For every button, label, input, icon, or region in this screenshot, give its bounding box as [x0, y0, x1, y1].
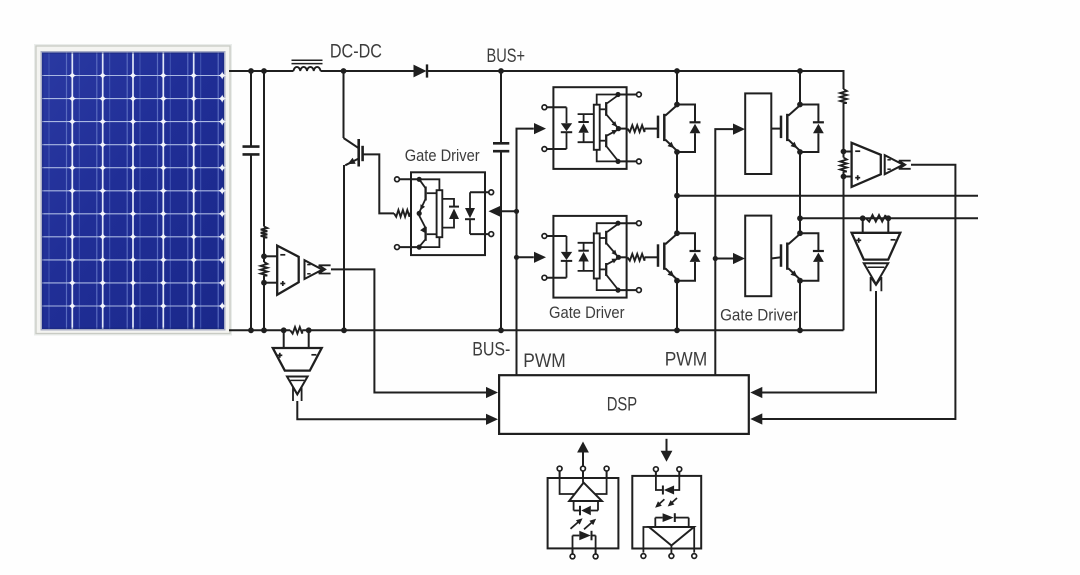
wire PWM2 to U7 arrow [715, 258, 733, 260]
wire CMP4 output to DSP [762, 291, 876, 393]
wire BUS- main [302, 329, 843, 331]
transistor GD1 lower (totem pole) [419, 216, 436, 247]
node BUS- shunt left [281, 327, 287, 333]
node Q4 (leg B high) emitter [797, 149, 803, 155]
node BUS- shunt right [306, 327, 312, 333]
transistor Q3 (leg A low) IGBT [658, 234, 677, 280]
wire shunt stub left [862, 218, 864, 233]
pin GD1 top-left [395, 177, 420, 182]
pin U4 top-right [618, 92, 641, 97]
wire U5 resistor to IGBT gate [645, 256, 659, 258]
wire input cap leg upper [250, 71, 252, 147]
wire CMP1 output to DSP [331, 269, 487, 392]
resistor U4 gate [627, 125, 644, 132]
wire boost gate to driver resistor [363, 154, 394, 213]
svg-text:PWM: PWM [665, 349, 708, 370]
diode GD1 feedback [442, 199, 459, 228]
wire bus corner down [843, 70, 845, 89]
wire phase A output line [677, 195, 978, 197]
pin GD1 top-right [470, 190, 494, 195]
wire CMP2 stub left [283, 330, 285, 348]
capacitor C2 (dc-link) [493, 143, 509, 151]
diode OC1 photodiode [574, 501, 598, 515]
wire boost emitter down to BUS- [343, 165, 345, 330]
transistor Q4 (leg B high) IGBT [781, 105, 800, 151]
diode OC2 photodiode [655, 513, 688, 527]
node BUS+ / dc-link cap [498, 68, 504, 74]
svg-text:BUS-: BUS- [472, 340, 510, 361]
wire CMP3 output to DSP [762, 165, 955, 419]
wire boost tap down [343, 71, 345, 138]
diode U4 feedback [578, 114, 594, 142]
node bus divider tap2 [841, 174, 847, 180]
svg-text:Gate Driver: Gate Driver [720, 306, 798, 325]
op-amp U9 trapezoid (output current sense) [852, 233, 901, 260]
arrow PWM2 into U7 [733, 253, 745, 264]
wire U4 output to gate resistor [619, 128, 628, 130]
transistor U5 lower [600, 258, 618, 289]
diode Q4 (leg B high) freewheel [800, 105, 824, 153]
wire divider leg upper [263, 71, 265, 227]
wire OC1 LED legs [573, 536, 596, 549]
pin OC2 top-left [654, 467, 659, 476]
pin U5 bottom-left [542, 275, 567, 280]
arrow into DSP right upper [750, 387, 762, 398]
wire divider leg lower [263, 276, 265, 331]
buffer stage U9b [864, 263, 888, 284]
wire tap to CMP1 minus input [264, 255, 277, 257]
wire inductor to diode [321, 70, 414, 72]
arrow into DSP left lower [486, 414, 498, 425]
glyph M U9 [871, 277, 882, 291]
node divider tap upper [261, 253, 267, 259]
coupler channel rect GD1 [437, 190, 443, 237]
label DSP [607, 394, 638, 415]
light arrows OC2 [655, 498, 677, 508]
node U4 bottom rail [615, 159, 620, 164]
opto isolator OC1 box [548, 478, 619, 548]
wire phase B output line [800, 217, 978, 219]
node BUS- dc-link [498, 327, 504, 333]
gate driver U3 box [411, 172, 485, 255]
wire leg A mid upper [676, 152, 678, 235]
label Gate Driver (leg B) [720, 306, 798, 325]
node leg B at BUS- [797, 327, 803, 333]
transistor Q2 (leg A high) IGBT [658, 105, 677, 151]
node GD1 bottom rail [417, 245, 422, 250]
light arrows OC1 [571, 518, 597, 529]
node GD1 output [417, 211, 422, 216]
wire U5 output to gate resistor [619, 256, 628, 258]
node BUS+ / bridge leg B [797, 68, 803, 74]
resistor R2 (divider lower) [261, 262, 268, 276]
solar panel PV1 [34, 44, 232, 336]
amplifier OC1 triangle [569, 483, 602, 501]
pin GD1 bottom-left [395, 245, 420, 250]
diode U5 feedback [578, 243, 594, 271]
wire BUS- from panel [229, 329, 290, 331]
buffer stage U2b with sigma glyph [305, 260, 331, 279]
wire PWM2 vertical from DSP [715, 129, 733, 375]
node leg A phase output [674, 193, 680, 199]
node Q2 (leg A high) emitter [674, 149, 680, 155]
diode Q2 (leg A high) freewheel [677, 105, 701, 153]
node BUS- divider leg [261, 327, 267, 333]
transistor U4 lower [600, 130, 618, 161]
pin GD1 bottom-right [470, 232, 494, 237]
label Gate Driver (leg A) [549, 303, 625, 322]
diode U5 LED [561, 236, 572, 278]
buffer stage U8b with sigma glyph [885, 155, 911, 174]
pin U5 top-left [542, 234, 567, 239]
wire GD1 bottom rail [419, 237, 439, 247]
wire divider mid [843, 103, 845, 158]
amplifier OC2 triangle [649, 527, 694, 546]
diode Q3 (leg A low) freewheel [677, 233, 701, 281]
svg-text:BUS+: BUS+ [487, 46, 526, 67]
buffer stage U10b [287, 377, 308, 395]
wire input cap leg lower [250, 154, 252, 330]
wire PWM1 vertical from DSP [517, 129, 534, 376]
arrow PWM2 into U6 [733, 124, 745, 135]
wire U5 bottom rail [597, 279, 617, 291]
diode D1 (boost diode) [414, 64, 428, 77]
gate driver U5 box [553, 216, 626, 298]
wire PWM1 to GD3 arrow [517, 256, 534, 258]
arrow into GD1 right side [489, 206, 501, 217]
wire diode to bus corner [427, 70, 844, 72]
node BUS+ / bridge leg A [674, 68, 680, 74]
arrow PWM1 into GD3 [534, 252, 546, 263]
wire leg A from BUS+ [676, 71, 678, 105]
op-amp U8 trapezoid (bus voltage sense) [852, 143, 881, 187]
node shunt left [860, 215, 866, 221]
transistor Q1 (boost IGBT) [344, 138, 363, 167]
gate driver U4 box [553, 87, 626, 169]
pin U5 top-right [618, 221, 641, 226]
node shunt right [885, 215, 891, 221]
node U5 bottom rail [615, 288, 620, 293]
diode GD1 LED [465, 192, 475, 234]
pin OC2 bottom-left [641, 554, 646, 559]
wire gate resistor into GD1 [410, 212, 420, 214]
resistor R7 (BUS- shunt) [290, 327, 302, 334]
label BUS+ [487, 46, 526, 67]
pin U4 bottom-right [618, 159, 641, 164]
svg-text:DC-DC: DC-DC [330, 41, 382, 62]
transistor U4 upper [600, 95, 618, 127]
wire top bus from panel to boost section [229, 70, 294, 72]
node top bus / boost transistor tap [341, 68, 347, 74]
node divider tap lower [261, 280, 267, 286]
node leg A at BUS- [674, 327, 680, 333]
wire GD1 top rail [419, 179, 439, 190]
node U5 top rail [615, 221, 620, 226]
node Q3 (leg A low) emitter [674, 278, 680, 284]
pin OC1 top-left [557, 466, 562, 478]
capacitor C1 (panel input cap) [243, 147, 260, 155]
wire CMP2 output to DSP [297, 401, 487, 419]
opto isolator OC2 box [632, 476, 701, 549]
label PWM right [665, 349, 708, 370]
node Q5 (leg B low) emitter [797, 278, 803, 284]
wire leg B emitter to BUS- [799, 281, 801, 331]
wire OC2 right pin in [674, 476, 679, 490]
wire dc-link lower [500, 151, 502, 330]
pin U4 top-left [542, 105, 567, 110]
node top bus / input cap leg [248, 68, 254, 74]
transistor U5 upper [600, 224, 618, 256]
node BUS- boost emitter [341, 327, 347, 333]
arrow into DSP right lower [750, 413, 762, 424]
wire U4 top rail [597, 95, 617, 105]
pin OC1 top-right [604, 466, 609, 478]
node PWM1 / GD1 stub [514, 209, 519, 214]
svg-text:PWM: PWM [523, 351, 566, 372]
wire leg A emitter to BUS- [676, 281, 678, 331]
svg-text:Gate Driver: Gate Driver [549, 303, 625, 322]
pin OC1 bottom-right [593, 548, 598, 558]
coupler channel rect U5 [594, 233, 600, 278]
wire OC2 left pin in [656, 476, 662, 490]
node GD1 top rail [417, 177, 422, 182]
arrow into DSP left upper [486, 387, 498, 398]
resistor U5 gate [627, 254, 644, 261]
pin OC2 bottom-right [692, 554, 697, 559]
wire U5 top rail [597, 223, 617, 233]
pin U4 bottom-left [542, 147, 567, 152]
wire PWM to GD1 input [500, 210, 517, 212]
glyph M U10 [293, 387, 302, 401]
wire OC2 mid leg [670, 546, 672, 554]
diode Q5 (leg B low) freewheel [800, 233, 824, 281]
pin OC1 top-mid [581, 466, 586, 478]
wire tap to CMP1 plus input [264, 282, 277, 284]
resistor R6 (output shunt) [866, 215, 886, 222]
op-amp U10 trapezoid (input current sense) [273, 348, 322, 371]
pin OC2 top-right [677, 467, 682, 476]
wire U7 to Q5 gate [771, 257, 781, 258]
DSP block U11 [499, 375, 749, 434]
node BUS- cap leg [248, 327, 254, 333]
wire U4 resistor to IGBT gate [645, 128, 659, 130]
pin OC1 bottom-left [570, 548, 575, 558]
label Gate Driver (boost) [405, 146, 480, 165]
resistor R4 (bus divider upper) [840, 89, 847, 103]
node Q3 (leg A low) collector [674, 230, 680, 236]
pin OC2 bottom-mid [669, 554, 674, 559]
wire between divider resistors [263, 238, 265, 263]
wire OC1 mid pin in [582, 478, 584, 483]
wire tap2 to CMP3 [844, 176, 852, 178]
label DC-DC [330, 41, 382, 62]
inductor L1 (DC-DC boost inductor) [292, 60, 323, 71]
node top bus / divider leg [261, 68, 267, 74]
node U4 output [616, 126, 621, 131]
resistor R3 (boost gate resistor) [394, 210, 410, 217]
node Q2 (leg A high) collector [674, 102, 680, 108]
svg-text:DSP: DSP [607, 394, 638, 415]
svg-text:Gate Driver: Gate Driver [405, 146, 480, 165]
label PWM left [523, 351, 566, 372]
wire leg B mid [799, 152, 801, 235]
wire OC1 left pin in [560, 478, 577, 494]
wire OC1 right pin in [591, 478, 607, 494]
wire tap1 to CMP3 [844, 151, 852, 153]
coupler channel rect U4 [594, 105, 600, 150]
node Q5 (leg B low) collector [797, 230, 803, 236]
diode U4 LED [561, 107, 572, 149]
transistor Q5 (leg B low) IGBT [781, 234, 800, 280]
diode OC1 LED [573, 531, 596, 541]
node Q4 (leg B high) collector [797, 102, 803, 108]
node PWM2 / U7 stub [713, 256, 718, 261]
node leg B phase output [797, 215, 803, 221]
op-amp U2 trapezoid (panel voltage sense) [277, 246, 299, 295]
node U4 top rail [615, 92, 620, 97]
diode OC2 LED [663, 486, 674, 495]
resistor R5 (bus divider lower) [840, 158, 847, 172]
wire leg B from BUS+ [799, 71, 801, 105]
wire shunt stub right [887, 218, 889, 233]
wire OC2 right leg [693, 527, 695, 553]
wire CMP2 stub right [308, 330, 310, 348]
node PWM1 / GD3 stub [514, 255, 519, 260]
pin U5 bottom-right [618, 288, 641, 293]
node bus divider tap1 [841, 149, 847, 155]
label BUS- [472, 340, 510, 361]
transistor GD1 upper (totem pole) [419, 179, 436, 211]
wire OC2 left leg [643, 527, 649, 553]
wire U4 bottom rail [597, 150, 617, 162]
wire divider to BUS- [843, 172, 845, 331]
gate driver U6 box (leg B high) [745, 93, 771, 174]
gate driver U7 box (leg B low) [745, 216, 771, 297]
resistor R1 (divider upper) [261, 227, 268, 238]
arrow DSP to OC2 [661, 439, 673, 462]
wire U6 to Q4 gate [771, 128, 781, 130]
arrow OC1 to DSP [577, 442, 589, 467]
arrow PWM1 into GD2 [534, 123, 546, 134]
node U5 output [616, 255, 621, 260]
wire dc-link upper [500, 71, 502, 143]
